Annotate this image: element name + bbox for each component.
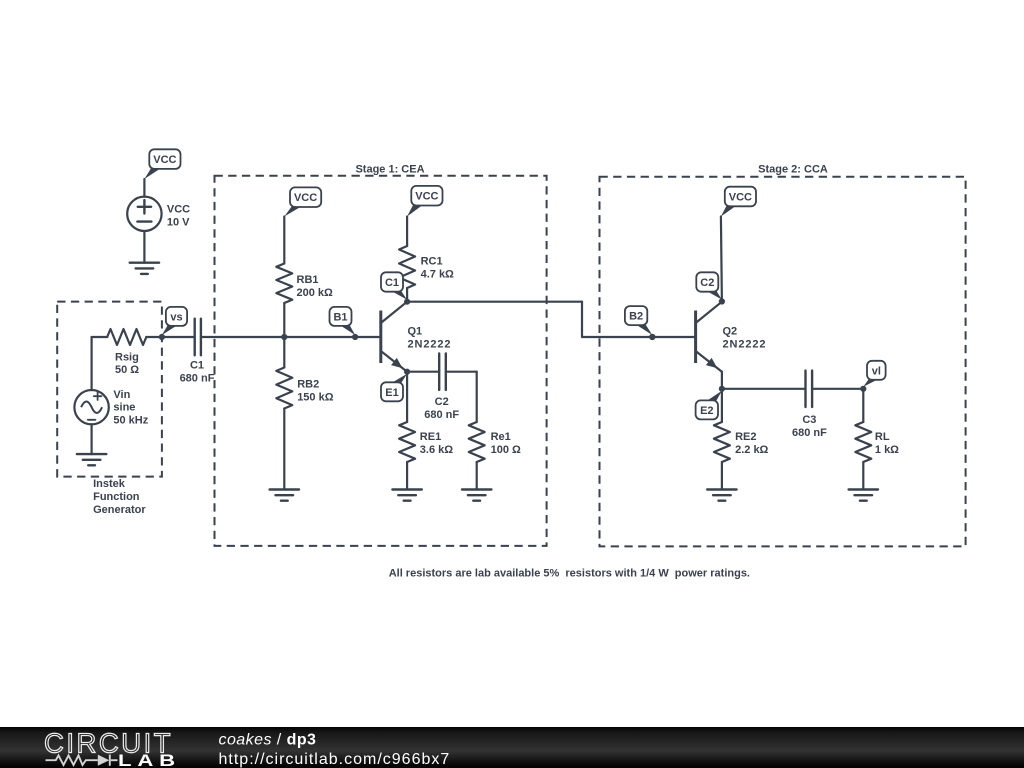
svg-text:C2: C2 xyxy=(435,396,449,408)
svg-text:3.6 kΩ: 3.6 kΩ xyxy=(420,444,453,456)
svg-text:2N2222: 2N2222 xyxy=(723,339,767,351)
svg-text:4.7 kΩ: 4.7 kΩ xyxy=(421,268,454,280)
svg-text:RL: RL xyxy=(875,431,890,443)
svg-text:Rsig: Rsig xyxy=(115,351,139,363)
svg-text:Generator: Generator xyxy=(93,504,146,516)
svg-text:C3: C3 xyxy=(802,414,816,426)
svg-text:680 nF: 680 nF xyxy=(424,409,459,421)
svg-text:coakes / dp3: coakes / dp3 xyxy=(219,732,317,749)
svg-text:VCC: VCC xyxy=(294,192,317,204)
svg-text:Vin: Vin xyxy=(113,389,130,401)
svg-text:2N2222: 2N2222 xyxy=(408,339,452,351)
svg-text:Stage 2: CCA: Stage 2: CCA xyxy=(758,163,828,175)
svg-text:http://circuitlab.com/c966bx7: http://circuitlab.com/c966bx7 xyxy=(219,751,451,768)
svg-text:VCC: VCC xyxy=(729,192,752,204)
svg-text:RE1: RE1 xyxy=(420,431,441,443)
svg-text:Stage 1: CEA: Stage 1: CEA xyxy=(355,163,424,175)
svg-text:Re1: Re1 xyxy=(491,431,511,443)
svg-text:RB2: RB2 xyxy=(297,379,319,391)
svg-text:RB1: RB1 xyxy=(297,274,319,286)
svg-text:680 nF: 680 nF xyxy=(792,427,827,439)
svg-text:200 kΩ: 200 kΩ xyxy=(297,287,334,299)
svg-text:B2: B2 xyxy=(629,311,643,323)
svg-text:50 Ω: 50 Ω xyxy=(115,364,139,376)
svg-text:vs: vs xyxy=(170,311,182,323)
svg-text:680 nF: 680 nF xyxy=(180,373,215,385)
svg-text:Q1: Q1 xyxy=(408,326,423,338)
svg-text:C1: C1 xyxy=(190,360,204,372)
svg-text:E2: E2 xyxy=(700,405,713,417)
svg-text:VCC: VCC xyxy=(167,204,190,216)
svg-text:150 kΩ: 150 kΩ xyxy=(297,391,334,403)
svg-text:10 V: 10 V xyxy=(167,217,190,229)
svg-text:1 kΩ: 1 kΩ xyxy=(875,444,899,456)
svg-text:VCC: VCC xyxy=(415,191,438,203)
svg-text:RC1: RC1 xyxy=(421,256,443,268)
svg-text:sine: sine xyxy=(113,402,135,414)
svg-text:C1: C1 xyxy=(385,277,399,289)
svg-text:Function: Function xyxy=(93,491,140,503)
svg-text:2.2 kΩ: 2.2 kΩ xyxy=(735,444,768,456)
svg-text:All resistors are lab availabl: All resistors are lab available 5% resis… xyxy=(389,568,750,580)
svg-text:RE2: RE2 xyxy=(735,431,756,443)
svg-text:Instek: Instek xyxy=(93,478,126,490)
svg-text:B1: B1 xyxy=(333,311,347,323)
svg-text:100 Ω: 100 Ω xyxy=(491,444,521,456)
svg-text:Q2: Q2 xyxy=(723,326,738,338)
svg-text:VCC: VCC xyxy=(153,154,176,166)
svg-text:vl: vl xyxy=(872,365,881,377)
svg-text:C2: C2 xyxy=(700,277,714,289)
svg-text:LAB: LAB xyxy=(118,751,181,768)
svg-text:E1: E1 xyxy=(385,387,398,399)
svg-text:50 kHz: 50 kHz xyxy=(113,415,148,427)
